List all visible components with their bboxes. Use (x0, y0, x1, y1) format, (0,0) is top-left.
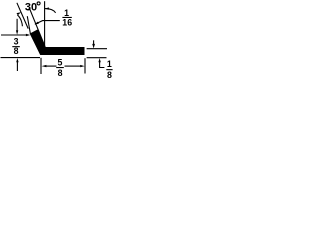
svg-text:8: 8 (58, 68, 63, 78)
leg inner edge line (30, 9, 45, 47)
5/8 left extension line (40, 58, 42, 74)
svg-text:8: 8 (107, 70, 112, 80)
1/8 bottom extension line (87, 57, 107, 59)
3/8 right arrowhead (26, 34, 30, 36)
5/8 dim line left (46, 65, 57, 67)
1/8 down arrow stem (93, 40, 95, 44)
5/8 right extension line (84, 58, 86, 73)
angle extension line (17, 3, 28, 29)
label 30 degrees (25, 1, 40, 13)
5/8 left arrowhead (42, 65, 47, 67)
30 deg arc right stub (45, 9, 56, 13)
base line (1, 57, 41, 59)
vertical extension line (44, 1, 46, 45)
leg end cap (27, 9, 30, 10)
3/8 up arrow stem (16, 62, 18, 71)
bent bar part: solid filled lower portion (30, 29, 85, 55)
1/8 leader (100, 62, 105, 68)
svg-text:3: 3 (14, 37, 19, 47)
3/8 top leader line (1, 34, 26, 36)
fraction 5/8 (56, 58, 64, 78)
3/8 down arrow stem (16, 19, 18, 31)
3/8 down arrowhead (16, 30, 18, 34)
1/16 leader arrowhead (35, 22, 39, 25)
5/8 right arrowhead (80, 65, 84, 67)
1/8 top extension line (87, 48, 107, 50)
svg-text:30: 30 (25, 1, 37, 13)
svg-text:16: 16 (62, 18, 72, 28)
1/8 up arrowhead (98, 58, 100, 62)
30 deg arc left stub (17, 15, 22, 26)
5/8 dim line right (65, 65, 81, 67)
fraction 1/8 (106, 59, 112, 80)
30 arc left arrowhead (17, 12, 22, 15)
leg outer edge line (27, 16, 30, 34)
svg-text:5: 5 (58, 58, 63, 68)
svg-text:8: 8 (14, 46, 19, 56)
fraction 1/16 (62, 8, 72, 27)
svg-text:1: 1 (107, 59, 112, 69)
30 arc right arrowhead (45, 7, 49, 9)
1/16 leader (35, 21, 60, 25)
3/8 up arrowhead (16, 58, 18, 62)
1/8 down arrowhead (92, 44, 95, 49)
fraction 3/8 (12, 37, 19, 57)
